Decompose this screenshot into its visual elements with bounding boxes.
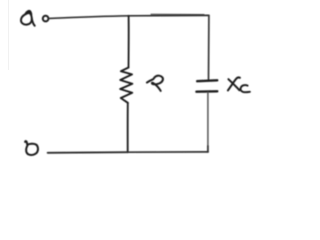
wire: bottom junction to bottom-right corner [128,151,208,153]
wire: terminal b to bottom junction [48,151,128,154]
capacitor label X second stroke [228,77,240,90]
capacitor label X [228,79,239,90]
capacitor label c subscript [241,85,250,92]
capacitor C1 bottom plate [196,90,217,93]
wire: capacitor bottom stub lower dark part [207,146,209,152]
node a loop [21,13,32,25]
capacitor C1 top plate [197,79,217,82]
node a tail [32,19,35,26]
wire doubled stroke [151,13,204,15]
resistor label R [147,76,163,91]
terminal a [43,16,49,22]
node b label [25,141,38,155]
wire: resistor bottom stub [127,103,129,153]
wire: resistor top stub [128,16,130,68]
wire: capacitor bottom stub [207,92,209,146]
resistor R1 zigzag [120,68,132,103]
wire: capacitor top stub [208,16,210,80]
wire: top junction to top-right corner [129,14,209,16]
node a label [26,11,31,15]
scan artifact faint line [8,0,9,70]
wire: terminal a to top junction [49,16,129,19]
